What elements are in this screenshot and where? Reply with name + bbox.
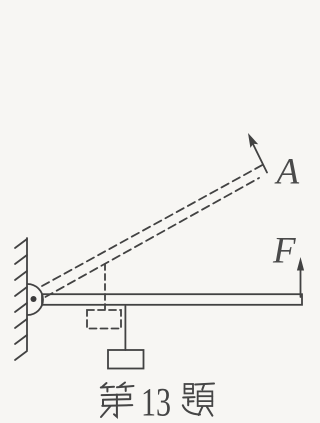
- svg-text:13: 13: [141, 380, 171, 423]
- svg-text:F: F: [272, 231, 296, 272]
- svg-text:A: A: [274, 152, 300, 193]
